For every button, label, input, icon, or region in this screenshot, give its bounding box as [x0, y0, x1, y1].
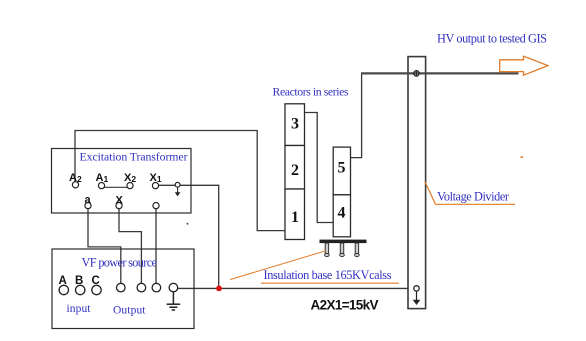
svg-text:Excitation Transformer: Excitation Transformer [80, 150, 188, 164]
svg-text:5: 5 [338, 160, 346, 177]
wire A2 loop to reactor 1 [75, 131, 285, 231]
ground symbol under output 4 [167, 292, 181, 310]
wire X1 to bottom junction [156, 185, 219, 288]
terminal A1 [96, 172, 109, 189]
svg-text:input: input [67, 303, 92, 315]
svg-text:a: a [85, 194, 92, 206]
reactor 2 [285, 146, 305, 190]
svg-text:Voltage Divider: Voltage Divider [437, 190, 509, 204]
insulation base leader line [230, 251, 326, 280]
output terminal 2 [137, 283, 146, 292]
bottom ground bus wire [178, 287, 414, 289]
svg-text:4: 4 [338, 205, 346, 222]
unlabeled terminal [153, 203, 159, 209]
terminal X2 [124, 172, 136, 189]
svg-text:VF power source: VF power source [82, 256, 158, 270]
HV output line [361, 72, 519, 74]
terminal X1 [150, 172, 162, 189]
reactor 4 [333, 195, 350, 237]
input terminal A [59, 275, 69, 295]
wire reactor 5 to HV line [351, 73, 362, 157]
output terminal 3 [152, 283, 161, 292]
ground arrow at auxiliary terminal [175, 187, 181, 196]
svg-text:HV output to tested GIS: HV output to tested GIS [437, 32, 547, 46]
output terminal 1 [117, 283, 126, 292]
wire third terminal to VF output 3 [155, 209, 157, 283]
reactor 3 [285, 104, 305, 146]
svg-text:A: A [59, 275, 67, 287]
divider top node [414, 71, 419, 77]
voltage divider body [408, 57, 426, 309]
insulation base underline [261, 282, 399, 284]
svg-text:2: 2 [291, 162, 299, 179]
svg-text:Insulation base 165KVcalss: Insulation base 165KVcalss [264, 268, 392, 282]
svg-text:Reactors in series: Reactors in series [273, 84, 349, 98]
reactor 5 [333, 147, 350, 195]
input terminal B [75, 275, 85, 295]
orange speck [521, 156, 524, 158]
insulation base bar [320, 240, 367, 244]
svg-text:X: X [116, 195, 124, 207]
stray dot [187, 223, 189, 225]
terminal A2 [69, 172, 82, 188]
divider bottom node and ground arrow [413, 286, 421, 305]
wire terminal X to VF output 2 [119, 209, 141, 283]
HV arrow [500, 56, 548, 75]
svg-text:X2: X2 [124, 172, 136, 184]
insulation base leg 1 [325, 243, 330, 257]
svg-text:A1: A1 [96, 172, 109, 184]
svg-text:B: B [75, 275, 83, 287]
voltage divider leader line [425, 182, 515, 205]
auxiliary terminal on X1 wire [175, 182, 180, 187]
wire terminal a to VF output 1 [88, 209, 121, 283]
wire A1-X2 link [102, 186, 131, 188]
svg-text:1: 1 [291, 209, 299, 226]
svg-text:C: C [92, 275, 100, 287]
insulation base leg 3 [355, 243, 360, 257]
svg-text:Output: Output [113, 305, 146, 317]
output terminal 4 (grounded) [169, 283, 178, 292]
terminal X [116, 195, 124, 209]
transformer box [52, 149, 192, 214]
svg-text:A2X1=15kV: A2X1=15kV [311, 298, 379, 313]
wire reactor 3 to reactor stack 2 [305, 113, 334, 223]
junction red dot [216, 286, 222, 292]
svg-text:3: 3 [291, 116, 299, 133]
VF power source box [52, 249, 194, 329]
terminal a [85, 194, 92, 209]
svg-text:A2: A2 [69, 172, 82, 184]
reactor 1 [285, 189, 305, 240]
insulation base leg 2 [340, 243, 345, 257]
input terminal C [92, 275, 102, 295]
svg-text:X1: X1 [150, 172, 162, 184]
